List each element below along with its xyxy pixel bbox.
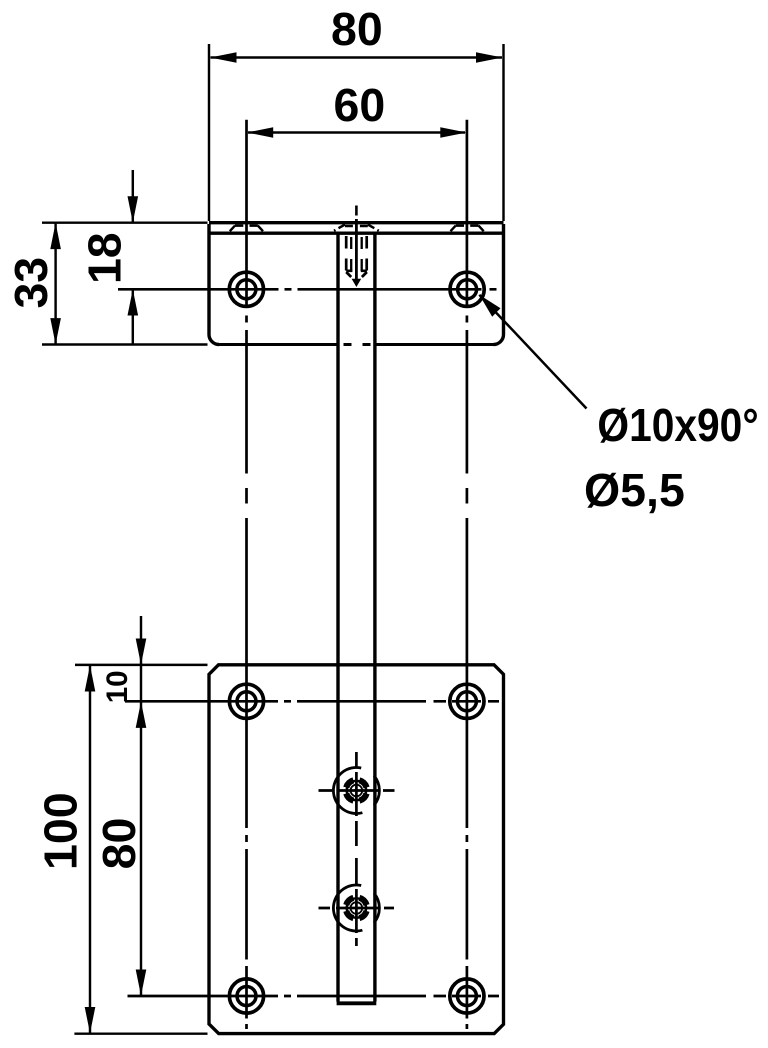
- stem cross-screw 2 right arc: [374, 893, 379, 923]
- dim 80 arrows: [210, 52, 502, 63]
- base plate top-right hole: [450, 684, 484, 718]
- bottom plate outline (chamfered corners): [209, 665, 504, 1034]
- dim 60 line: [248, 131, 465, 133]
- top plate bottom edge hidden behind stem: [344, 343, 371, 346]
- hidden countersink right hole (flange): [451, 226, 484, 232]
- svg-text:80: 80: [93, 818, 145, 870]
- stem cross-screw 2 head circles: [347, 898, 366, 917]
- right hole column centerline: [466, 120, 469, 1029]
- top hole row centerline: [118, 288, 497, 291]
- dim 18 line (outside arrows): [132, 170, 134, 345]
- stem cross-screw 2 recess arcs: [346, 898, 366, 918]
- top plate right edge: [494, 224, 504, 345]
- dim 33 line: [54, 224, 56, 344]
- top plate bottom edge: [219, 343, 338, 346]
- lower row centerline of base plate: [128, 995, 500, 998]
- dim 100 line: [89, 666, 91, 1033]
- top flange upper edge: [209, 221, 504, 224]
- stem cross-screw 1 large arc: [333, 767, 362, 813]
- stem right edge: [373, 232, 376, 1002]
- base plate bottom-left hole: [229, 979, 263, 1013]
- left hole column centerline: [245, 120, 248, 1029]
- upper row centerline of base plate: [125, 700, 499, 703]
- drill point arrow of tapped hole: [352, 279, 362, 287]
- hidden tapped hole in stem: [346, 236, 367, 277]
- dim 100 arrows: [85, 665, 96, 1033]
- dim 60 arrows: [247, 127, 467, 138]
- stem cross-screw 2 large arc: [333, 885, 362, 931]
- base plate top-left hole: [229, 684, 263, 718]
- leader arrowhead: [479, 295, 500, 317]
- leader line to countersunk hole: [479, 295, 586, 409]
- top plate left countersunk hole: [229, 272, 263, 306]
- svg-text:60: 60: [334, 79, 386, 131]
- dim 18 arrows: [128, 196, 139, 315]
- svg-text:18: 18: [79, 232, 131, 284]
- stem bottom cap: [337, 1001, 377, 1005]
- dim 33/18 extension lines: [42, 223, 208, 345]
- dim 10 outside arrow: [136, 639, 147, 665]
- stem cross-screw 2 centerlines: [319, 907, 395, 910]
- stem cross-screw 1 centerlines: [319, 789, 395, 792]
- hidden countersink left hole (flange): [230, 226, 263, 232]
- stem left edge: [336, 232, 339, 1002]
- stem axis through tapped hole: [355, 219, 358, 280]
- svg-text:100: 100: [35, 792, 87, 870]
- stem cross-screw 1 right arc: [374, 776, 379, 806]
- svg-text:10: 10: [101, 670, 134, 703]
- dim 33 arrows: [50, 223, 61, 345]
- top plate left edge: [209, 224, 219, 345]
- hidden countersink centre (flange): [334, 225, 379, 231]
- svg-text:80: 80: [331, 3, 383, 55]
- svg-text:Ø10x90°: Ø10x90°: [597, 400, 758, 452]
- svg-text:Ø5,5: Ø5,5: [584, 464, 685, 516]
- stem axis dash above flange: [355, 206, 358, 216]
- dim 100 extension lines: [74, 665, 207, 1034]
- stem cross-screw 1 recess arcs: [346, 780, 366, 800]
- top plate bottom edge right part: [376, 343, 494, 346]
- base plate bottom-right hole: [450, 979, 484, 1013]
- dim 80 line: [211, 56, 503, 58]
- svg-text:33: 33: [5, 257, 57, 309]
- dim 80 bottom arrows: [136, 702, 147, 996]
- dim 10/80 line: [140, 616, 142, 996]
- top flange lower edge: [209, 231, 504, 234]
- top plate right countersunk hole: [450, 272, 484, 306]
- dim 80 extension lines: [209, 44, 504, 221]
- stem cross-screw 1 head circles: [347, 781, 366, 800]
